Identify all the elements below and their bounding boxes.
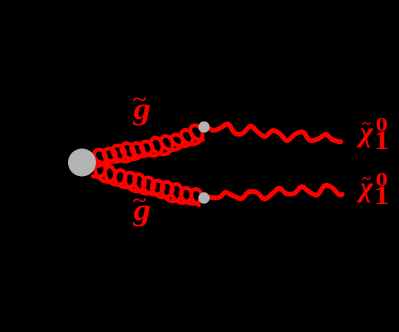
svg-text:1: 1: [374, 127, 389, 156]
vertex dot top: [198, 121, 209, 132]
interaction blob: [68, 149, 96, 177]
gluon line bottom (curly, blob to bottom vertex): [93, 162, 202, 205]
svg-text:~: ~: [362, 114, 372, 133]
wavy line to top neutralino: [209, 124, 341, 142]
svg-text:~: ~: [132, 89, 146, 110]
vertex dot bottom: [198, 192, 209, 203]
wavy line to bottom neutralino: [209, 185, 342, 199]
svg-text:~: ~: [362, 169, 372, 188]
svg-text:~: ~: [132, 190, 146, 211]
svg-text:1: 1: [374, 182, 389, 211]
gluon line top (curly, blob to top vertex): [94, 125, 203, 166]
